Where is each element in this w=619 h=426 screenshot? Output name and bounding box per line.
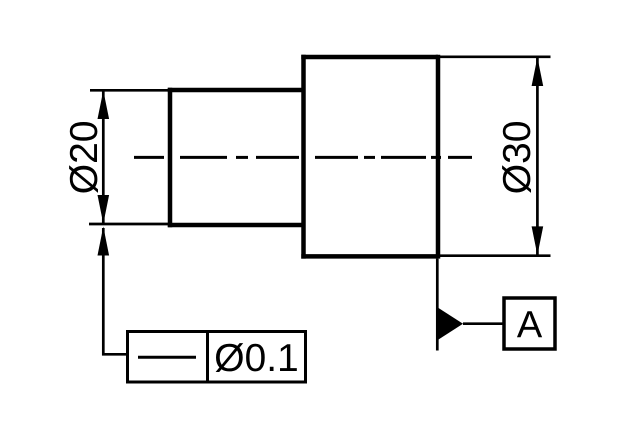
extension line top of Ø30 dimension [440,55,551,58]
centerline (shaft axis, dash-dot) [134,156,472,159]
leader arrowhead pointing up at Ø20 extension line [98,227,110,256]
arrowhead Ø20 top [98,91,110,120]
datum extension line below shaft [436,259,439,351]
straightness symbol [138,356,196,359]
tolerance text Ø0.1 [216,343,297,372]
large cylinder Ø30 outline [301,55,438,259]
arrowhead Ø20 bottom [98,195,110,224]
dimension text Ø20 [69,122,98,193]
extension line bottom of Ø30 dimension [440,254,551,257]
dimension text Ø30 [502,122,531,193]
extension line bottom of Ø20 dimension [89,223,170,226]
arrowhead Ø30 top [532,57,544,86]
arrowhead Ø30 bottom [532,226,544,255]
datum box [504,298,555,349]
dimension line Ø30 [536,58,539,255]
small cylinder Ø20 outline [168,88,304,227]
datum letter A [517,311,542,337]
extension line top of Ø20 dimension [90,89,170,92]
datum filled triangle [439,308,464,340]
feature control frame [128,332,306,383]
dimension line Ø20 [102,91,105,224]
leader line from feature control frame [103,228,127,354]
datum leader line [463,322,503,325]
